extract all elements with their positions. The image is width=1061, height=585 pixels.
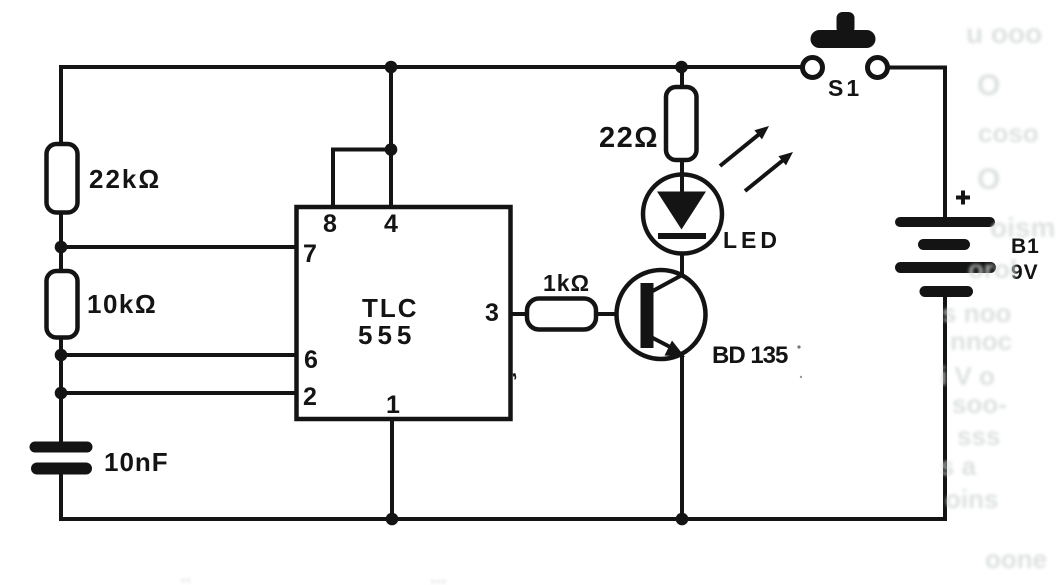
svg-text:s noo: s noo bbox=[942, 298, 1011, 328]
wire left column between 10k and C1 bbox=[59, 336, 63, 442]
node junction bottom rail emitter bbox=[676, 513, 689, 526]
wire R 1k to base bbox=[596, 312, 642, 316]
node junction pin8 stub bbox=[385, 143, 398, 156]
svg-text:orol: orol bbox=[968, 254, 1017, 284]
node junction top rail pin4 bbox=[385, 61, 398, 74]
wire emitter to bottom rail bbox=[680, 352, 684, 519]
svg-text:8: 8 bbox=[323, 210, 337, 238]
wire S1 to battery corner bbox=[888, 66, 946, 70]
transistor Q1 BD135 bbox=[617, 270, 706, 359]
ghost print-through text right margin bbox=[180, 18, 1055, 585]
svg-text:6: 6 bbox=[304, 346, 318, 374]
svg-text:22Ω: 22Ω bbox=[599, 122, 659, 154]
wire 22R to LED bbox=[680, 159, 684, 177]
wire LED column top rail to 22R bbox=[680, 67, 684, 89]
svg-text:oone: oone bbox=[985, 544, 1047, 574]
svg-text:10nF: 10nF bbox=[104, 447, 169, 477]
svg-text:oism: oism bbox=[990, 212, 1055, 243]
svg-text:2: 2 bbox=[303, 383, 317, 411]
svg-text:s a: s a bbox=[940, 451, 977, 481]
svg-text:...: ... bbox=[430, 566, 447, 585]
LED light ray arrow 2 bbox=[745, 152, 793, 191]
wire pin1 to bottom rail bbox=[390, 417, 394, 519]
svg-text:oins: oins bbox=[945, 484, 998, 514]
wire top rail bbox=[61, 65, 803, 69]
svg-text:LED: LED bbox=[723, 227, 781, 253]
svg-text:3: 3 bbox=[485, 299, 499, 327]
wire left column top bbox=[59, 67, 63, 146]
resistor 1k bbox=[527, 299, 596, 330]
svg-text:1: 1 bbox=[386, 391, 400, 419]
wire left column cap to bottom rail bbox=[59, 474, 63, 519]
wire battery top lead bbox=[943, 68, 947, 219]
wire pin7 to left column bbox=[61, 245, 298, 249]
wire battery bottom lead bbox=[943, 296, 947, 519]
wire pin6 to left column bbox=[61, 353, 298, 357]
svg-text:7: 7 bbox=[303, 240, 317, 268]
svg-text:TLC: TLC bbox=[362, 293, 419, 323]
wire bottom rail bbox=[61, 517, 945, 521]
battery B1 bbox=[900, 222, 991, 292]
svg-text:O: O bbox=[977, 163, 1000, 196]
capacitor 10nF bbox=[35, 447, 87, 469]
LED D1 bbox=[643, 175, 722, 254]
op-amp U1 TLC555 box bbox=[297, 207, 511, 419]
svg-text:u ooo: u ooo bbox=[966, 18, 1042, 49]
node junction left pin6 bbox=[55, 349, 68, 362]
LED light ray arrow 1 bbox=[720, 126, 769, 166]
wire left column between 22k and 10k bbox=[59, 211, 63, 273]
svg-text:4: 4 bbox=[384, 210, 398, 238]
resistor 22k bbox=[47, 144, 78, 213]
resistor 10k bbox=[47, 271, 78, 338]
node junction left pin7 bbox=[55, 241, 68, 254]
svg-text:nnoc: nnoc bbox=[950, 326, 1012, 356]
svg-text:i V o: i V o bbox=[940, 361, 995, 391]
svg-text:soo-: soo- bbox=[952, 389, 1007, 419]
wire LED cathode to transistor collector bbox=[680, 238, 684, 277]
svg-text:1kΩ: 1kΩ bbox=[543, 270, 590, 296]
svg-text:BD 135: BD 135 bbox=[712, 342, 788, 369]
wire pin4 from top rail bbox=[389, 67, 393, 209]
svg-text:O: O bbox=[977, 69, 1000, 102]
svg-text:10kΩ: 10kΩ bbox=[87, 289, 157, 319]
svg-text:S1: S1 bbox=[828, 75, 862, 101]
wire pin3 to R 1k bbox=[510, 312, 528, 316]
node junction top rail LED column bbox=[675, 61, 688, 74]
resistor 22R bbox=[666, 87, 697, 160]
battery plus sign bbox=[956, 191, 970, 205]
node junction left pin2 bbox=[55, 387, 68, 400]
svg-text:22kΩ: 22kΩ bbox=[89, 164, 161, 194]
wire pin8 stub bbox=[333, 150, 391, 210]
svg-text:555: 555 bbox=[358, 320, 416, 350]
node junction bottom rail pin1 bbox=[386, 513, 399, 526]
svg-text:coso: coso bbox=[978, 118, 1039, 148]
svg-text:..: .. bbox=[180, 565, 191, 585]
switch S1 bbox=[803, 12, 888, 78]
wire pin2 to left column bbox=[61, 391, 298, 395]
svg-text:sss: sss bbox=[957, 421, 1000, 451]
speck near BD135 bbox=[797, 345, 800, 348]
